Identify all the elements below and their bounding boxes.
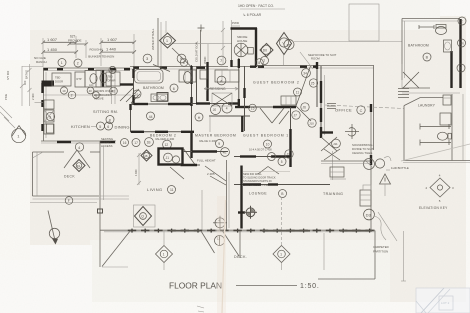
svg-text:OFFICE: OFFICE	[335, 108, 352, 113]
office right wall	[373, 66, 375, 151]
svg-text:TBD: TBD	[55, 76, 60, 80]
faint vertical line right	[403, 231, 405, 281]
cross symbol lounge	[244, 206, 257, 219]
office label	[335, 106, 365, 114]
top wall right of smokehouse	[250, 66, 318, 69]
svg-text:Q: Q	[141, 215, 144, 219]
svg-text:1 607: 1 607	[47, 37, 58, 42]
svg-text:17: 17	[134, 141, 138, 145]
bedroom 2 label	[145, 134, 177, 149]
svg-text:J0: J0	[213, 108, 217, 112]
circle tags under dining	[121, 139, 129, 147]
svg-text:IVY 900: IVY 900	[6, 70, 10, 80]
svg-text:1: 1	[61, 61, 63, 65]
pantry room TBD DOOR	[52, 73, 71, 86]
laundry fixtures	[420, 95, 451, 146]
corner inset drawing bottom right	[416, 288, 470, 313]
svg-text:1: 1	[166, 39, 168, 43]
diamond 41 bathroom	[133, 90, 141, 98]
vanity bath3	[444, 40, 452, 52]
svg-text:MASTER BEDROOM: MASTER BEDROOM	[195, 134, 236, 138]
svg-text:CEILING TILES: CEILING TILES	[352, 151, 372, 155]
top wall center	[130, 67, 228, 70]
svg-text:1HD BOTTLE: 1HD BOTTLE	[391, 166, 409, 170]
svg-text:6: 6	[111, 69, 113, 73]
svg-text:1 607: 1 607	[107, 37, 118, 42]
swing lines lounge left	[205, 166, 226, 185]
dim vertical with ticks	[221, 21, 225, 65]
circle 1 right	[457, 64, 465, 72]
dim vertical living	[134, 153, 141, 185]
svg-text:8: 8	[258, 61, 260, 65]
svg-text:34: 34	[303, 72, 307, 76]
svg-text:VALUE C 400: VALUE C 400	[199, 139, 217, 143]
svg-text:J10: J10	[309, 122, 314, 126]
circle tag 3 top	[143, 54, 152, 63]
lounge label	[249, 190, 287, 198]
carpeted partition leader	[374, 216, 386, 240]
svg-text:10-4 A 50 DT C 400: 10-4 A 50 DT C 400	[249, 148, 272, 152]
window hatch far left	[0, 106, 12, 121]
circle tag 9 top	[177, 54, 186, 63]
bathtub	[135, 70, 164, 84]
svg-text:PINE: PINE	[4, 94, 8, 100]
dimension line 1450	[42, 47, 79, 54]
svg-text:8: 8	[109, 118, 111, 122]
circle tags on top wall	[58, 59, 66, 67]
svg-text:J6: J6	[303, 106, 307, 110]
toilet bath3	[436, 25, 447, 35]
shower box dark	[157, 93, 168, 102]
circle J11	[332, 139, 341, 148]
entry porch verticals	[157, 18, 159, 66]
svg-text:J7: J7	[294, 114, 298, 118]
lounge door swing V	[258, 167, 279, 175]
toilet nook left of bathroom	[96, 70, 117, 95]
office block top wall	[318, 66, 374, 69]
robe X	[212, 93, 232, 106]
new divide note	[308, 53, 337, 61]
svg-text:F: F	[68, 199, 70, 203]
circle tag 4 deck door	[75, 143, 83, 151]
svg-text:11: 11	[170, 188, 174, 192]
circle tag 3 left	[46, 112, 54, 120]
deck edge main	[100, 229, 375, 233]
circle tag on wall	[147, 112, 155, 120]
circle on wall y107	[249, 104, 257, 112]
svg-text:40: 40	[111, 90, 115, 94]
svg-text:1: 1	[460, 67, 462, 71]
door swing bath3	[402, 64, 419, 88]
svg-text:FULL HEIGHT: FULL HEIGHT	[197, 159, 216, 163]
master top wall	[209, 116, 250, 132]
circle tag 7 top	[217, 56, 226, 65]
circle tag 16 top guest2	[256, 59, 264, 67]
svg-text:FLOOR PLAN: FLOOR PLAN	[169, 281, 222, 291]
master bedroom label	[195, 134, 236, 148]
svg-text:D3: D3	[366, 212, 372, 217]
svg-text:RANCH: RANCH	[36, 60, 47, 64]
hall wall training	[370, 104, 372, 230]
svg-text:SITTING RM.: SITTING RM.	[93, 110, 118, 114]
svg-text:1:50.: 1:50.	[300, 283, 320, 290]
dimension 1607 right	[100, 37, 137, 44]
svg-text:DRESSING: DRESSING	[207, 87, 226, 91]
svg-text:LOUNGE: LOUNGE	[249, 192, 267, 196]
svg-text:10: 10	[135, 93, 139, 97]
laundry block	[403, 94, 470, 163]
svg-text:H: H	[198, 116, 201, 120]
svg-text:1 840: 1 840	[134, 169, 138, 176]
svg-text:KITCHEN: KITCHEN	[71, 124, 90, 129]
svg-text:TRAINING: TRAINING	[323, 192, 343, 196]
svg-text:48: 48	[144, 154, 148, 158]
doors over cupboards note	[94, 89, 113, 101]
circle 1h right	[458, 39, 466, 47]
svg-text:BATHROOM: BATHROOM	[408, 44, 429, 48]
circle 4E corner	[221, 148, 230, 157]
post diamond left	[156, 231, 173, 270]
svg-text:5: 5	[99, 125, 101, 129]
lounge notes tiny	[243, 172, 290, 187]
guest bedroom 2 label	[253, 81, 302, 97]
door swing WIR	[170, 148, 196, 179]
circle J6	[301, 103, 309, 111]
top wall left wing	[43, 68, 130, 71]
steps right	[360, 185, 371, 206]
kitchen label	[71, 122, 113, 130]
svg-text:ACCESS: ACCESS	[101, 144, 113, 148]
basin dressing	[211, 103, 233, 115]
towel rail bath3	[419, 25, 434, 29]
svg-text:COLD MT GOAL: COLD MT GOAL	[195, 40, 199, 62]
wall between guest bedrooms	[235, 106, 296, 108]
circle 34	[302, 69, 311, 78]
svg-text:4: 4	[226, 107, 228, 111]
svg-text:1HD OPEN · FACT CO.: 1HD OPEN · FACT CO.	[238, 4, 274, 8]
bedroom2 wall horizontal	[130, 131, 194, 133]
rotated pipe note	[151, 28, 155, 50]
svg-text:PWD: PWD	[232, 21, 240, 25]
tags 40 45	[87, 87, 99, 98]
dimension 627 provide	[68, 35, 89, 46]
svg-text:25: 25	[311, 82, 315, 86]
svg-text:LAUNDRY: LAUNDRY	[418, 104, 436, 108]
svg-text:9: 9	[218, 142, 220, 146]
kitchen block left wall	[42, 68, 55, 141]
circle tag 5 on top wall	[180, 59, 188, 67]
svg-text:↳ 6 POLAR: ↳ 6 POLAR	[243, 13, 262, 17]
svg-text:1 440: 1 440	[106, 47, 117, 52]
svg-text:10: 10	[266, 143, 270, 147]
vanity basins	[151, 94, 168, 102]
door diamond entry	[160, 33, 176, 48]
circle tag 2 kitchen	[68, 91, 76, 99]
circle 2 top right	[458, 17, 466, 25]
right deck vertical	[324, 231, 375, 280]
svg-text:12: 12	[165, 143, 169, 147]
office dash line	[325, 105, 404, 109]
svg-text:2: 2	[77, 62, 79, 66]
svg-text:DECK.: DECK.	[234, 255, 247, 259]
svg-text:1 450: 1 450	[47, 47, 58, 52]
svg-text:2: 2	[71, 94, 73, 98]
circle J10	[308, 119, 316, 127]
svg-text:LIVING: LIVING	[147, 187, 163, 192]
living left wall	[98, 141, 104, 267]
diamond Q living	[134, 205, 156, 227]
svg-text:BATHROOM: BATHROOM	[143, 86, 164, 90]
left deck	[33, 152, 101, 199]
svg-text:TBD: TBD	[108, 75, 113, 79]
long pencil line top right	[294, 41, 402, 43]
svg-text:1: 1	[280, 253, 282, 257]
drawer room TBD DRWR	[106, 72, 120, 86]
post diamond right	[273, 197, 290, 270]
svg-text:J2: J2	[287, 153, 291, 157]
circle 4 deck target symbol	[213, 216, 227, 230]
circle tag 6 on wall	[109, 66, 116, 73]
svg-text:DECK: DECK	[64, 175, 75, 179]
living top lines	[100, 196, 129, 199]
north arrow	[48, 211, 60, 245]
wc room kitchen	[85, 71, 101, 88]
stairs right of guest1	[324, 149, 340, 180]
elevation key diamond	[426, 174, 455, 204]
wall below master	[180, 152, 228, 166]
kitchen bench units	[44, 100, 54, 134]
svg-text:STANDARDS PARTS 49: STANDARDS PARTS 49	[243, 179, 272, 183]
svg-text:HOUSE: HOUSE	[237, 39, 247, 43]
svg-text:RTP: RTP	[77, 77, 82, 81]
svg-text:900: 900	[23, 80, 27, 85]
carpeted partition note	[373, 245, 389, 253]
compass cross office	[345, 124, 359, 139]
training room top wall	[321, 161, 371, 164]
lounge left dark wall	[240, 166, 242, 229]
door diamond D0	[260, 44, 273, 57]
bathroom3 top right	[402, 19, 461, 89]
deck step diagonals	[201, 231, 240, 259]
svg-text:6: 6	[107, 125, 109, 129]
svg-text:2 400: 2 400	[31, 93, 35, 100]
soundproofing note	[352, 143, 374, 155]
dining right wall	[130, 104, 132, 132]
bathroom walls	[131, 67, 191, 105]
svg-text:4: 4	[270, 155, 272, 159]
dressing room	[191, 58, 239, 106]
svg-text:15: 15	[251, 107, 255, 111]
circle tag 10	[60, 87, 67, 94]
top right pencil square	[349, 4, 379, 41]
circle 25	[309, 79, 317, 87]
svg-text:DINING: DINING	[115, 125, 130, 130]
kitchen counter line	[44, 94, 131, 96]
closet guest2	[281, 96, 296, 105]
svg-text:J11: J11	[333, 142, 338, 146]
svg-text:3: 3	[49, 115, 51, 119]
guest1 bottom wall	[234, 156, 291, 158]
deck door tent	[64, 150, 90, 172]
svg-text:GUEST BEDROOM 2: GUEST BEDROOM 2	[253, 81, 300, 85]
door swing office bottom	[321, 133, 337, 152]
seating dining access note	[101, 137, 113, 148]
svg-text:1½: 1½	[459, 42, 464, 46]
entry diagonal	[172, 48, 191, 67]
sliding track guide	[201, 190, 203, 230]
dark bar right	[120, 83, 134, 85]
window diamond V	[277, 33, 292, 66]
svg-text:4E: 4E	[223, 151, 227, 155]
wall bedroom2 left vertical	[191, 65, 193, 158]
svg-text:10: 10	[62, 89, 66, 93]
svg-text:5: 5	[281, 160, 283, 164]
sheet edge slant	[401, 144, 470, 161]
window tag circle 1 left	[4, 117, 26, 143]
tags bottom guest1	[268, 153, 276, 161]
tent triangle	[380, 174, 391, 196]
svg-text:2: 2	[461, 20, 463, 24]
svg-text:16: 16	[287, 43, 291, 47]
circle 12 deck	[215, 236, 225, 246]
fridge room RTP	[75, 72, 85, 87]
sitting room label	[93, 110, 118, 124]
svg-text:TO SLIDING DOOR TRACK: TO SLIDING DOOR TRACK	[243, 176, 276, 180]
circle D3	[364, 209, 375, 220]
paper grain	[0, 0, 1, 1]
shower circle	[364, 157, 392, 170]
guest1 right wall	[290, 107, 292, 167]
kitchen bottom wall	[41, 141, 116, 143]
svg-text:C: C	[360, 109, 363, 113]
svg-text:40: 40	[89, 89, 93, 93]
svg-text:GUEST BEDROOM 1: GUEST BEDROOM 1	[243, 134, 289, 138]
svg-text:4: 4	[78, 146, 80, 150]
svg-text:16: 16	[123, 141, 127, 145]
training shelf rect	[330, 167, 346, 179]
door swing bathroom top	[153, 65, 170, 72]
svg-text:DOOR: DOOR	[55, 79, 63, 83]
office left wall	[321, 66, 336, 138]
dark wall bar	[102, 70, 104, 87]
dimension line 1607 upper-left	[42, 37, 79, 44]
svg-text:11: 11	[296, 91, 300, 95]
WIR dark box	[159, 149, 183, 165]
deck diagonal left	[102, 231, 131, 267]
smoke house room	[231, 28, 258, 67]
svg-text:1B: 1B	[147, 141, 151, 145]
bathroom3 label	[408, 44, 431, 62]
living label	[147, 186, 176, 194]
door swing guest1	[260, 108, 289, 124]
dressing label + arrow	[204, 76, 238, 91]
svg-text:PROVIDE: PROVIDE	[68, 39, 82, 43]
circle 7 under D0	[261, 57, 269, 65]
svg-text:LOT 2: LOT 2	[441, 301, 450, 305]
lounge top wall	[234, 184, 330, 186]
svg-text:D1: D1	[77, 164, 81, 168]
svg-text:5: 5	[183, 61, 185, 65]
guest2 right wall	[316, 62, 318, 107]
dim guide verticals	[42, 38, 44, 67]
svg-text:J1: J1	[166, 156, 170, 160]
door swing zigzag	[296, 66, 311, 121]
diamond 48	[141, 150, 152, 161]
svg-text:ROOM: ROOM	[311, 57, 320, 61]
wardrobe row dressing	[179, 70, 239, 82]
svg-text:ELEVATION KEY: ELEVATION KEY	[419, 206, 448, 210]
wc toilet left dressing	[184, 72, 192, 84]
svg-text:DRWR: DRWR	[108, 78, 116, 82]
hall lines below bath3	[402, 88, 460, 93]
svg-text:A.D: A.D	[89, 83, 93, 87]
left vertical dim	[4, 64, 43, 106]
guest bedroom 1 label	[243, 134, 289, 152]
svg-text:NEW 600 WALL: NEW 600 WALL	[243, 172, 262, 176]
1hd bottle note	[386, 166, 409, 170]
dimension 1440	[100, 47, 137, 54]
circle J7	[292, 111, 300, 119]
svg-text:6: 6	[173, 87, 175, 91]
paper crease	[217, 196, 226, 313]
wall living/lounge vertical	[227, 160, 230, 230]
svg-text:1: 1	[163, 253, 165, 257]
svg-text:ABOVE: ABOVE	[94, 97, 104, 101]
guest bed2 left wall	[244, 66, 246, 131]
small mark bottom	[197, 306, 204, 312]
bathroom label	[143, 84, 178, 92]
svg-text:WATER PITFALL: WATER PITFALL	[151, 28, 155, 50]
svg-text:D0: D0	[263, 49, 267, 53]
svg-text:44: 44	[149, 115, 153, 119]
